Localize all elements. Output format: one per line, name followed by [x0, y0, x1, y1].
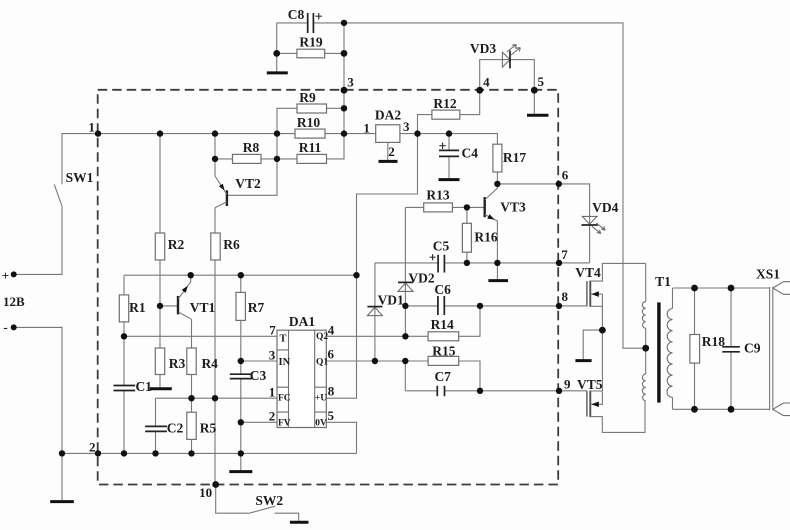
- resistor R12: [432, 110, 460, 119]
- svg-text:2: 2: [388, 144, 395, 159]
- junction node 5: [531, 87, 538, 94]
- wire node3 riser x=344: [343, 23, 345, 134]
- capacitor C2: [145, 426, 167, 431]
- resistor R11: [297, 154, 327, 163]
- junction node 3: [341, 87, 348, 94]
- resistor R8: [233, 154, 262, 163]
- svg-text:VT3: VT3: [500, 200, 526, 215]
- junction dot T line R1: [121, 333, 127, 339]
- wire plus terminal to SW1 lower: [14, 207, 62, 274]
- svg-text:R5: R5: [200, 421, 217, 436]
- svg-text:C3: C3: [250, 368, 267, 383]
- svg-text:2: 2: [269, 409, 276, 424]
- svg-text:C7: C7: [434, 369, 451, 384]
- svg-text:0V: 0V: [315, 419, 327, 429]
- junction dots output network: [691, 285, 734, 413]
- svg-text:IN: IN: [279, 357, 291, 368]
- svg-text:5: 5: [537, 74, 544, 89]
- svg-text:+U: +U: [315, 394, 327, 404]
- transformer T1 primary winding: [642, 263, 645, 400]
- wire R13 base line and VD2 column: [405, 207, 484, 336]
- wire SW2 fixed contact to ground: [275, 513, 299, 521]
- ground under R19: [267, 71, 288, 74]
- svg-text:R2: R2: [168, 237, 185, 252]
- svg-text:VD2: VD2: [408, 271, 434, 286]
- junction node 4: [476, 87, 483, 94]
- ground SW2: [290, 521, 309, 524]
- junction dots top area: [273, 20, 347, 112]
- svg-text:1: 1: [363, 121, 370, 136]
- wire R6 column emitter part and long drop to node 10: [214, 134, 216, 485]
- junction dots VT3 cluster: [464, 181, 501, 266]
- junction dot C7 line: [477, 388, 483, 394]
- svg-text:8: 8: [328, 384, 335, 399]
- resistor R4: [187, 348, 196, 375]
- svg-text:R16: R16: [474, 230, 497, 245]
- transistor VT3: [485, 184, 498, 263]
- resistor R3: [155, 348, 164, 375]
- svg-text:R6: R6: [223, 237, 240, 252]
- wire FV line pin2: [241, 421, 277, 423]
- svg-text:6: 6: [562, 168, 569, 183]
- svg-text:VD4: VD4: [592, 200, 618, 215]
- svg-text:C6: C6: [434, 282, 451, 297]
- junction dots 275 rail: [188, 272, 360, 278]
- wire C9 column: [730, 288, 732, 409]
- capacitor C3: [230, 374, 252, 378]
- junction dot VT4 VT5 sources: [599, 327, 606, 334]
- wire SW1 upper and node1 rail y=133.6 to R17 top: [62, 134, 497, 185]
- wire R12 branch to node 4: [418, 90, 480, 133]
- svg-text:8: 8: [562, 289, 569, 304]
- transformer T1 core bar: [657, 302, 660, 402]
- svg-text:R7: R7: [248, 300, 265, 315]
- ground main bottom left: [50, 500, 74, 503]
- svg-text:R18: R18: [702, 334, 725, 349]
- svg-text:C2: C2: [167, 421, 184, 436]
- junction dot IN line: [238, 358, 244, 364]
- svg-text:R4: R4: [201, 356, 218, 371]
- capacitor C4 polarized: [439, 143, 459, 157]
- wire IN line pin3 and C3 R7 column: [241, 275, 277, 453]
- svg-text:T: T: [280, 334, 287, 345]
- capacitor C7: [437, 386, 444, 396]
- svg-text:FC: FC: [278, 394, 291, 404]
- resistor R16: [462, 223, 471, 252]
- label DA1 pin names: [278, 332, 328, 429]
- svg-text:4: 4: [328, 323, 335, 338]
- IC DA1 box: [277, 330, 326, 427]
- wire VD3 loop node4 to node5 with ground: [480, 60, 535, 114]
- wire 0V pin5 route and bottom rail: [62, 422, 357, 453]
- svg-text:VT5: VT5: [577, 377, 603, 392]
- ground VT3 emitter: [488, 279, 508, 282]
- resistor R2: [155, 233, 164, 260]
- svg-text:SW1: SW1: [66, 170, 94, 185]
- wire +12V top rail from C8 to T1 center tap: [277, 23, 646, 348]
- junction dots bottom rail: [59, 450, 244, 456]
- junction dots VD2 column: [402, 303, 408, 340]
- ground at VT4 VT5 sources: [583, 330, 602, 359]
- svg-text:VT2: VT2: [235, 176, 261, 191]
- capacitor C1: [114, 386, 136, 391]
- junction dot T1 center tap: [642, 345, 649, 352]
- svg-text:R14: R14: [431, 317, 454, 332]
- terminal dots 12V input: [11, 271, 17, 330]
- wire node10 to SW2: [216, 485, 249, 514]
- svg-text:7: 7: [561, 247, 568, 262]
- svg-text:XS1: XS1: [756, 267, 780, 282]
- junction node 10: [212, 481, 219, 488]
- junction node 6: [556, 181, 562, 187]
- LED VD4: [582, 216, 606, 233]
- ground under C4: [439, 178, 460, 181]
- svg-text:R10: R10: [297, 115, 320, 130]
- junction node 9: [556, 388, 562, 394]
- svg-text:3: 3: [347, 75, 354, 90]
- transistor VT5 MOSFET: [587, 391, 645, 433]
- label DA2 pin numbers: [363, 119, 410, 159]
- svg-text:3: 3: [269, 348, 276, 363]
- wire C3 ground stem: [240, 453, 242, 470]
- svg-text:R13: R13: [426, 188, 449, 203]
- svg-text:C5: C5: [433, 239, 450, 254]
- ground under C3 column: [229, 470, 252, 473]
- svg-text:R15: R15: [432, 344, 455, 359]
- resistor R18: [690, 335, 700, 364]
- svg-text:T1: T1: [655, 274, 671, 289]
- junction dots node1 rail: [157, 130, 452, 136]
- wire R2 R3 column and VT1 base lead: [160, 134, 178, 388]
- wire Q2 pin4 line through R14 up to node8 line: [326, 306, 480, 336]
- transformer T1 secondary winding: [667, 288, 673, 409]
- svg-text:DA1: DA1: [289, 314, 315, 329]
- wire x=356.5 vertical +U with jog to DA2 output: [326, 134, 417, 399]
- svg-text:VD3: VD3: [470, 41, 496, 56]
- wire T line pin7: [124, 335, 277, 337]
- svg-text:-: -: [3, 320, 7, 335]
- wire minus terminal branch to main ground: [14, 327, 62, 500]
- wire R4 R5 column: [191, 319, 193, 454]
- resistor R7: [236, 292, 245, 320]
- svg-text:Q1: Q1: [316, 358, 328, 368]
- capacitor C9: [722, 347, 740, 352]
- label DA1 pin numbers: [269, 323, 335, 424]
- junction node 1: [95, 130, 101, 136]
- junction dot VT1 base: [157, 303, 163, 309]
- capacitor C8 polarized: [308, 13, 322, 33]
- svg-text:C8: C8: [288, 7, 305, 22]
- wire DA2 pin 2 to ground: [387, 142, 389, 160]
- resistor R10: [295, 129, 325, 138]
- wire C8 left leg and R19 line with ground: [277, 23, 344, 72]
- diode VD2: [398, 282, 413, 291]
- junction node 7: [556, 260, 562, 266]
- wire R18 column: [694, 288, 696, 409]
- diode VD1: [367, 307, 382, 316]
- ground DA2 pin2: [379, 160, 398, 163]
- junction dots R8 line: [212, 156, 280, 162]
- resistor R5: [187, 412, 196, 439]
- svg-text:10: 10: [199, 485, 212, 500]
- ground under R3: [150, 387, 172, 390]
- switch SW1 lever: [54, 184, 62, 206]
- svg-text:+: +: [2, 268, 9, 283]
- svg-text:1: 1: [269, 385, 276, 400]
- svg-text:3: 3: [403, 119, 410, 134]
- wire R8 R11 line y=159 with jog up to rail: [215, 134, 344, 159]
- junction node 8: [556, 303, 562, 309]
- transistor VT1: [178, 275, 191, 319]
- resistor R13: [424, 203, 453, 212]
- wire VT3 emitter ground: [496, 263, 498, 279]
- svg-text:7: 7: [269, 323, 276, 338]
- wire output rails to XS1: [673, 288, 770, 409]
- wire node9 line y=390.8 with C7 gap to VT5 gate: [405, 390, 587, 392]
- dashed unit boundary box: [98, 90, 559, 485]
- wire rail y=275.2 and R1 C1 column: [124, 275, 357, 453]
- wire C4 branch with ground: [448, 134, 450, 179]
- ground under node 5: [527, 114, 549, 117]
- junction node 2: [95, 450, 101, 456]
- resistor R15: [428, 356, 459, 365]
- svg-text:9: 9: [564, 377, 571, 392]
- svg-text:R12: R12: [433, 96, 456, 111]
- transistor VT2: [215, 176, 227, 208]
- svg-text:1: 1: [88, 120, 95, 135]
- transistor VT4 MOSFET: [587, 263, 646, 391]
- capacitor C6: [438, 296, 444, 315]
- wire R16 column: [466, 207, 468, 263]
- svg-text:FV: FV: [278, 419, 291, 429]
- svg-text:C1: C1: [135, 379, 152, 394]
- resistor R1: [119, 295, 128, 322]
- svg-text:C4: C4: [462, 146, 479, 161]
- svg-text:R17: R17: [503, 150, 526, 165]
- wire FC line pin1 and C2 column: [156, 398, 278, 453]
- svg-text:Q2: Q2: [316, 332, 328, 342]
- svg-text:2: 2: [89, 440, 96, 455]
- op-amp DA2 box: [376, 125, 400, 143]
- wire VD1 column: [374, 263, 376, 361]
- svg-text:R1: R1: [129, 300, 146, 315]
- wire node6 line and VD4 drop: [497, 184, 589, 263]
- svg-text:VT1: VT1: [190, 300, 216, 315]
- svg-text:R8: R8: [243, 140, 260, 155]
- svg-text:R9: R9: [299, 90, 316, 105]
- switch SW2 lever: [249, 506, 275, 513]
- svg-text:R19: R19: [299, 35, 322, 50]
- resistor R14: [428, 332, 459, 341]
- svg-text:C9: C9: [744, 341, 761, 356]
- resistor R19: [297, 49, 325, 58]
- wire node8 line y=305.9 with C6 gap to VT4 gate: [405, 305, 587, 307]
- svg-text:DA2: DA2: [375, 108, 401, 123]
- svg-text:R11: R11: [299, 140, 322, 155]
- LED VD3: [502, 45, 520, 69]
- junction dots FC line: [188, 395, 218, 401]
- wire R9 branch and x=277 vertical to VT2 base: [228, 108, 344, 195]
- svg-text:SW2: SW2: [255, 493, 283, 508]
- svg-text:VT4: VT4: [575, 265, 601, 280]
- junction dots Q1 line: [372, 358, 409, 364]
- wire Q1 pin6 line through R15 down to node9 line: [326, 361, 480, 391]
- wire C7 left riser: [404, 361, 406, 391]
- resistor R17: [493, 144, 502, 172]
- junction dot node8 line: [477, 303, 483, 309]
- wire node7 line y=262.9 with C5 gap: [375, 262, 590, 264]
- resistor R9: [297, 104, 327, 113]
- svg-text:12B: 12B: [3, 294, 25, 309]
- resistor R6: [211, 233, 220, 260]
- capacitor C5 polarized: [430, 254, 445, 272]
- svg-text:4: 4: [483, 75, 490, 90]
- svg-text:6: 6: [328, 347, 335, 362]
- svg-text:R3: R3: [169, 356, 186, 371]
- junction dot FV line: [238, 419, 244, 425]
- svg-text:5: 5: [328, 408, 335, 423]
- connector XS1: [770, 282, 790, 416]
- svg-text:VD1: VD1: [378, 293, 404, 308]
